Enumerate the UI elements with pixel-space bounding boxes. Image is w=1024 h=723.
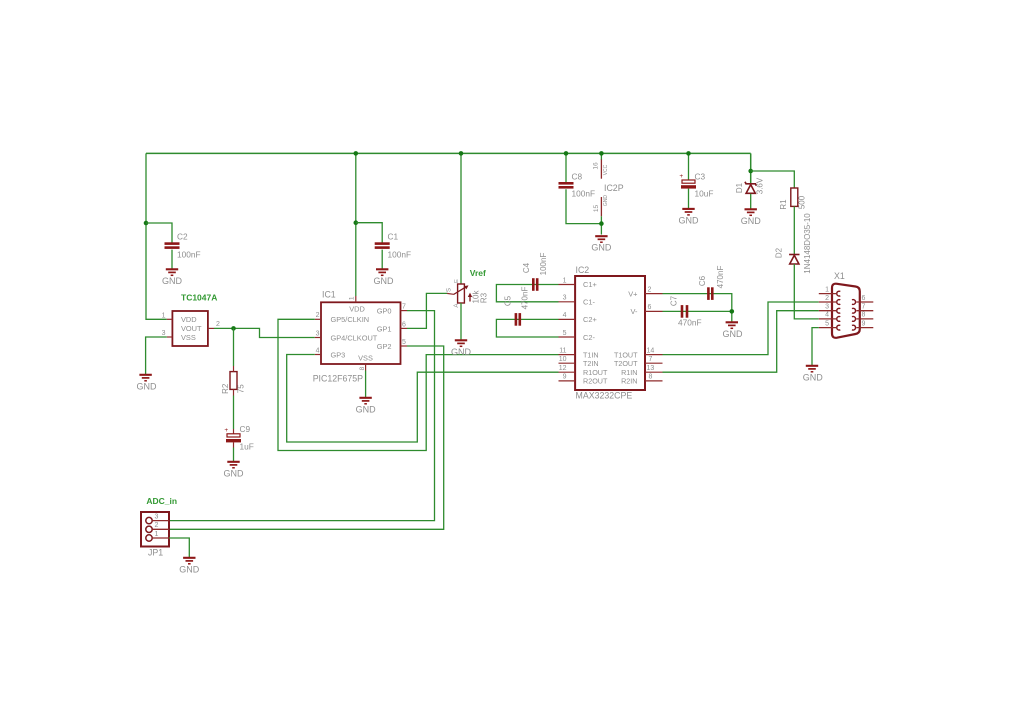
wire GP3 net IC1 pin4 loop to MAX3232 R1OUT xyxy=(287,355,559,443)
svg-text:T2IN: T2IN xyxy=(583,359,599,368)
wire VCC drop to R3 potentiometer xyxy=(460,153,462,284)
node VCC junction above C3 xyxy=(686,151,691,156)
svg-text:C8: C8 xyxy=(572,172,583,182)
ground at X1 xyxy=(806,366,818,372)
svg-text:C2: C2 xyxy=(177,232,188,242)
driver IC2 MAX3232 body xyxy=(575,276,645,390)
wire D1 to ground xyxy=(750,194,752,209)
wire IC1 VSS to ground xyxy=(365,371,367,398)
svg-text:IC2: IC2 xyxy=(576,265,590,275)
svg-text:C1: C1 xyxy=(388,232,399,242)
svg-text:GND: GND xyxy=(137,381,158,391)
wire VOUT net TC1047A pin2 to IC1 GP4 xyxy=(214,328,315,337)
svg-text:D2: D2 xyxy=(774,247,783,258)
svg-text:MAX3232CPE: MAX3232CPE xyxy=(576,391,633,401)
svg-text:12: 12 xyxy=(559,365,567,372)
node VCC junction above R3 xyxy=(459,151,464,156)
wire GP5 net IC1 pin2 loop to MAX3232 T1IN xyxy=(278,319,559,450)
svg-text:GND: GND xyxy=(679,215,700,225)
svg-text:16: 16 xyxy=(592,162,599,170)
svg-text:2: 2 xyxy=(316,312,320,319)
X1 right pin contacts xyxy=(852,300,856,305)
wire T1OUT net IC2 pin14 to X1 pin2 xyxy=(663,302,819,355)
svg-text:15: 15 xyxy=(593,205,600,213)
svg-text:JP1: JP1 xyxy=(148,548,163,558)
wire R3 to ground xyxy=(460,303,462,340)
svg-text:R1OUT: R1OUT xyxy=(583,368,608,377)
ground at C2 xyxy=(166,269,178,275)
power part IC2P pin15 GND xyxy=(600,197,602,216)
JP1 pin circles xyxy=(146,517,152,523)
svg-text:1: 1 xyxy=(563,277,567,284)
sensor TC1047A body xyxy=(172,311,208,346)
wire VCC top rail xyxy=(146,152,751,154)
svg-text:E: E xyxy=(454,279,460,283)
wire C2 to ground xyxy=(171,250,173,269)
svg-text:C5: C5 xyxy=(503,295,512,306)
svg-text:C3: C3 xyxy=(695,172,706,182)
capacitor C6 xyxy=(708,287,712,300)
svg-text:6: 6 xyxy=(402,321,406,328)
svg-text:GP4/CLKOUT: GP4/CLKOUT xyxy=(331,333,378,342)
svg-text:470nF: 470nF xyxy=(716,266,725,289)
svg-text:10uF: 10uF xyxy=(695,189,714,199)
node VCC junction above C8 xyxy=(564,151,569,156)
wire VCC drop to C8 xyxy=(565,153,567,183)
ground at R3 xyxy=(455,340,467,346)
capacitor C7 xyxy=(682,305,687,318)
capacitor C8 xyxy=(559,183,574,187)
svg-text:100nF: 100nF xyxy=(388,250,412,260)
ground at C9 xyxy=(227,462,239,468)
svg-text:10: 10 xyxy=(559,356,567,363)
svg-text:TC1047A: TC1047A xyxy=(181,293,217,303)
ground at C6/C7 xyxy=(726,322,738,328)
wire GP2 net IC1 pin5 to JP1 pin2 xyxy=(169,346,444,529)
svg-text:1: 1 xyxy=(348,296,355,300)
svg-text:8: 8 xyxy=(359,366,366,370)
IC1 pin stubs xyxy=(355,296,357,302)
svg-text:GND: GND xyxy=(723,329,744,339)
svg-text:8: 8 xyxy=(649,374,653,381)
svg-text:C2-: C2- xyxy=(583,333,595,342)
svg-text:7: 7 xyxy=(402,304,406,311)
node junction C8/IC2P ground xyxy=(599,221,604,226)
svg-text:5: 5 xyxy=(402,339,406,346)
svg-text:4: 4 xyxy=(563,312,567,319)
svg-text:1: 1 xyxy=(155,531,159,538)
svg-text:1uF: 1uF xyxy=(240,442,254,452)
svg-text:ADC_in: ADC_in xyxy=(146,496,177,506)
wire VCC drop to C3 xyxy=(688,153,690,180)
svg-text:3.6V: 3.6V xyxy=(755,177,764,194)
X1 left pin contacts xyxy=(837,291,841,296)
svg-text:6: 6 xyxy=(862,295,866,302)
ground at C3 xyxy=(682,209,694,215)
svg-text:S: S xyxy=(445,288,452,292)
node VCC junction at C1 branch xyxy=(354,220,359,225)
svg-text:2: 2 xyxy=(648,286,652,293)
svg-text:470nF: 470nF xyxy=(520,287,529,310)
microcontroller IC1 PIC12F675P body xyxy=(321,302,401,364)
svg-text:13: 13 xyxy=(647,365,655,372)
IC2 right pin stubs xyxy=(645,293,663,295)
wire GP1 net IC1 pin6 to R3 wiper xyxy=(407,293,447,328)
X1 right pin leads xyxy=(856,301,873,303)
svg-text:VCC: VCC xyxy=(603,164,609,175)
svg-text:X1: X1 xyxy=(834,271,845,281)
node VCC junction at C2 branch xyxy=(144,221,149,226)
IC2 left pin stubs xyxy=(559,284,576,286)
svg-text:100nF: 100nF xyxy=(572,189,596,199)
wire V- net IC2 pin6 to C7 and ground xyxy=(663,311,732,322)
svg-text:Vref: Vref xyxy=(470,268,486,278)
wire C5 loop IC2 pin4 to pin5 xyxy=(496,319,558,337)
wire IC2P pin15 to ground xyxy=(600,216,602,234)
svg-text:5: 5 xyxy=(825,320,829,327)
svg-text:R2OUT: R2OUT xyxy=(583,377,608,386)
wire C4 loop IC2 pin1 to pin3 xyxy=(496,285,558,302)
wire VCC right corner down to D1 xyxy=(750,153,752,183)
connector JP1 body xyxy=(141,512,169,547)
svg-text:GND: GND xyxy=(224,468,245,478)
zener diode D1 xyxy=(745,182,756,194)
wire C8 to IC2P ground junction xyxy=(566,189,601,223)
svg-text:GP2: GP2 xyxy=(377,342,392,351)
svg-text:470nF: 470nF xyxy=(678,318,702,328)
svg-text:1: 1 xyxy=(162,312,166,319)
svg-text:3: 3 xyxy=(155,513,159,520)
svg-text:C1+: C1+ xyxy=(583,280,597,289)
ground at IC1 VSS xyxy=(359,398,371,404)
wire TC1047A VSS to ground xyxy=(146,337,167,375)
node VCC junction above IC1 xyxy=(354,151,359,156)
wire C3 to ground xyxy=(688,189,690,209)
svg-text:1: 1 xyxy=(825,286,829,293)
svg-text:5: 5 xyxy=(563,330,567,337)
svg-text:C6: C6 xyxy=(698,275,707,286)
wire X1 pin5 to ground xyxy=(812,328,819,366)
resistor R1 xyxy=(791,188,798,206)
svg-text:VSS: VSS xyxy=(181,333,196,342)
svg-text:100nF: 100nF xyxy=(177,250,201,260)
svg-text:+: + xyxy=(679,173,683,180)
svg-text:R2IN: R2IN xyxy=(621,377,637,386)
svg-text:R2: R2 xyxy=(221,383,230,394)
svg-text:C7: C7 xyxy=(669,295,678,306)
capacitor C9 polarized xyxy=(227,434,240,437)
svg-text:2: 2 xyxy=(216,321,220,328)
capacitor C1 xyxy=(375,244,390,248)
wire VCC branch to R1 xyxy=(751,171,795,188)
capacitor C4 xyxy=(533,278,537,291)
wire R2 to C9 xyxy=(233,396,235,430)
svg-text:GND: GND xyxy=(162,276,183,286)
svg-text:GP5/CLKIN: GP5/CLKIN xyxy=(331,315,370,324)
ground at IC2P xyxy=(595,236,607,242)
svg-text:R1: R1 xyxy=(779,199,788,210)
svg-text:2: 2 xyxy=(155,522,159,529)
svg-text:9: 9 xyxy=(862,320,866,327)
svg-text:3: 3 xyxy=(316,330,320,337)
svg-text:4: 4 xyxy=(825,312,829,319)
wire VCC left drop to TC1047A VDD xyxy=(146,153,167,319)
capacitor C2 xyxy=(165,244,180,248)
svg-text:GND: GND xyxy=(179,564,200,574)
svg-text:75: 75 xyxy=(236,384,245,393)
svg-text:C2+: C2+ xyxy=(583,315,597,324)
connector X1 DB9 body xyxy=(832,284,860,338)
svg-text:VDD: VDD xyxy=(349,304,365,313)
TC1047A pin stubs xyxy=(167,318,173,320)
resistor R2 xyxy=(230,372,237,390)
svg-text:GND: GND xyxy=(591,243,612,253)
svg-text:14: 14 xyxy=(647,347,655,354)
svg-text:C4: C4 xyxy=(522,262,531,273)
svg-text:V-: V- xyxy=(631,307,639,316)
wire VCC drop to IC1 VDD xyxy=(355,153,357,296)
svg-text:GND: GND xyxy=(356,404,377,414)
wire D2 to X1 pin4 xyxy=(794,264,819,319)
ground at D1 xyxy=(745,209,757,215)
svg-text:500: 500 xyxy=(797,195,806,209)
diode D2 xyxy=(789,255,799,265)
svg-text:VSS: VSS xyxy=(358,353,373,362)
svg-text:GND: GND xyxy=(741,216,762,226)
svg-text:11: 11 xyxy=(559,347,566,354)
wire C1 to ground xyxy=(381,250,383,269)
svg-text:6: 6 xyxy=(648,304,652,311)
svg-text:9: 9 xyxy=(563,374,567,381)
potentiometer R3 xyxy=(458,284,465,303)
svg-text:GND: GND xyxy=(374,276,395,286)
svg-text:4: 4 xyxy=(316,347,320,354)
svg-text:GND: GND xyxy=(451,347,472,357)
svg-text:3: 3 xyxy=(563,295,567,302)
ground at C1 xyxy=(376,269,388,275)
wire V+ net IC2 pin2 to C6 xyxy=(663,294,732,312)
svg-text:V+: V+ xyxy=(628,289,637,298)
svg-text:VDD: VDD xyxy=(181,315,197,324)
wire VCC branch to C1 xyxy=(356,223,382,243)
svg-text:VOUT: VOUT xyxy=(181,324,202,333)
svg-text:IC1: IC1 xyxy=(322,290,336,300)
wire R1IN net IC2 pin13 to X1 pin3 xyxy=(663,311,819,373)
node VOUT junction at R2 xyxy=(231,326,236,331)
svg-text:GP0: GP0 xyxy=(377,307,392,316)
svg-text:PIC12F675P: PIC12F675P xyxy=(313,374,363,384)
wire R1 to D2 xyxy=(793,206,795,254)
svg-text:3: 3 xyxy=(825,304,829,311)
node VCC junction at D1/R1 xyxy=(748,169,753,174)
wire JP1 pin1 to ground xyxy=(169,538,189,558)
svg-text:GND: GND xyxy=(603,195,609,207)
svg-text:2: 2 xyxy=(825,295,829,302)
capacitor C5 xyxy=(516,313,520,326)
svg-text:D1: D1 xyxy=(735,182,744,193)
svg-text:GP1: GP1 xyxy=(377,325,392,334)
ground at JP1 xyxy=(183,558,195,564)
svg-text:T2OUT: T2OUT xyxy=(614,359,638,368)
svg-text:IC2P: IC2P xyxy=(604,183,624,193)
svg-text:R1IN: R1IN xyxy=(621,368,637,377)
svg-text:GND: GND xyxy=(803,372,824,382)
svg-text:C1-: C1- xyxy=(583,298,595,307)
node junction C6/C7 ground xyxy=(730,309,735,314)
svg-text:3: 3 xyxy=(162,330,166,337)
ground at TC1047A xyxy=(139,375,151,381)
X1 left pin leads xyxy=(819,293,836,295)
svg-text:8: 8 xyxy=(862,312,866,319)
wire VCC branch to C2 xyxy=(146,223,172,243)
svg-text:C9: C9 xyxy=(240,424,251,434)
svg-text:7: 7 xyxy=(649,356,653,363)
wire C9 to ground xyxy=(233,442,235,447)
svg-text:1N4148DO35-10: 1N4148DO35-10 xyxy=(803,213,812,274)
capacitor C3 polarized xyxy=(682,180,695,183)
svg-text:GP3: GP3 xyxy=(331,350,346,359)
svg-text:R3: R3 xyxy=(480,292,489,303)
wire VOUT down to R2 xyxy=(233,328,235,366)
power part IC2P pin16 VCC xyxy=(600,153,602,160)
wire GP0 net IC1 pin7 to JP1 pin3 xyxy=(169,311,435,521)
svg-text:7: 7 xyxy=(862,304,866,311)
svg-text:+: + xyxy=(224,427,228,434)
svg-text:100nF: 100nF xyxy=(539,253,548,276)
